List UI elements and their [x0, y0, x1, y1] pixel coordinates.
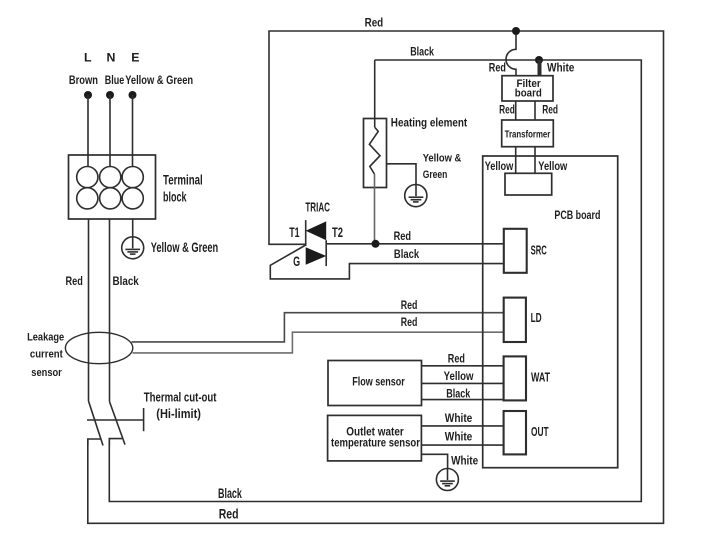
wire outlet white 1 — [422, 425, 504, 427]
node T2 junction — [372, 240, 380, 248]
svg-text:current: current — [30, 348, 63, 360]
wire L phase down — [88, 219, 90, 401]
wire red drop with hop — [506, 35, 516, 76]
svg-text:Black: Black — [410, 45, 434, 59]
wire black loop — [109, 60, 641, 502]
svg-text:Black: Black — [446, 387, 470, 401]
svg-text:Flow sensor: Flow sensor — [352, 374, 405, 388]
svg-text:TRIAC: TRIAC — [305, 200, 330, 215]
svg-text:Red: Red — [219, 505, 239, 521]
svg-text:Thermal cut-out: Thermal cut-out — [144, 389, 217, 404]
wire heating bottom — [374, 174, 376, 244]
label Thermal cut-out (Hi-limit) — [144, 389, 217, 421]
svg-text:Red: Red — [394, 229, 411, 243]
svg-text:board: board — [515, 88, 542, 100]
svg-text:Yellow & Green: Yellow & Green — [151, 240, 219, 255]
svg-text:White: White — [451, 453, 478, 467]
connector SRC — [504, 229, 547, 273]
wire sense upper to LD — [132, 313, 504, 342]
svg-text:E: E — [131, 51, 139, 65]
terminal block TB1 — [69, 155, 156, 219]
svg-text:Transformer: Transformer — [505, 129, 551, 140]
connector OUT — [504, 411, 549, 454]
ground earth E — [122, 237, 144, 259]
node white junction — [535, 56, 543, 64]
svg-text:T2: T2 — [332, 225, 343, 240]
triac Q1 — [305, 200, 330, 266]
wire L lead — [87, 95, 89, 167]
svg-text:Green: Green — [423, 169, 448, 181]
node red top junction — [512, 27, 520, 35]
svg-text:White: White — [445, 430, 473, 444]
wire outlet white 2 — [422, 444, 504, 446]
svg-text:Leakage: Leakage — [27, 331, 64, 343]
svg-text:Yellow: Yellow — [485, 159, 514, 173]
ground earth heating — [405, 183, 427, 206]
wire gate black to SRC — [270, 246, 504, 279]
svg-text:Blue: Blue — [105, 73, 125, 87]
wire white drop — [538, 60, 542, 76]
thermal cut-out switch S2 — [109, 402, 125, 445]
svg-text:Heating element: Heating element — [391, 116, 467, 130]
thermal cut-out switch S1 — [88, 401, 103, 446]
wire T2 red to SRC — [326, 243, 504, 245]
svg-text:White: White — [547, 61, 575, 75]
svg-text:Black: Black — [218, 485, 242, 501]
wire transformer yellow right — [534, 147, 536, 174]
wire N lead — [109, 95, 111, 167]
svg-text:Yellow: Yellow — [538, 159, 567, 173]
svg-text:(Hi-limit): (Hi-limit) — [156, 406, 201, 421]
svg-text:Red: Red — [401, 298, 418, 312]
wire filter-transformer left — [515, 101, 517, 120]
svg-text:G: G — [293, 254, 300, 269]
wire outlet earth white — [422, 454, 448, 468]
svg-text:Red: Red — [489, 61, 506, 75]
wire N neutral down — [109, 219, 111, 402]
svg-text:block: block — [163, 190, 187, 205]
svg-text:T1: T1 — [289, 225, 300, 240]
connector WAT — [504, 356, 550, 400]
svg-text:WAT: WAT — [531, 370, 550, 385]
svg-text:PCB board: PCB board — [554, 208, 600, 222]
cutout linkage — [87, 408, 144, 431]
label Leakage current sensor — [27, 331, 64, 379]
svg-text:Red: Red — [66, 274, 83, 288]
svg-text:Black: Black — [394, 247, 419, 261]
wire filter-transformer right — [534, 101, 536, 120]
wire flow yellow — [422, 382, 504, 384]
node N — [106, 91, 114, 99]
wire flow black — [422, 399, 504, 401]
svg-text:Red: Red — [401, 315, 418, 329]
transformer — [502, 120, 554, 147]
wire flow red — [422, 365, 504, 367]
svg-text:L: L — [84, 51, 92, 65]
leakage current sensor — [65, 332, 132, 363]
connector LD — [504, 298, 542, 342]
svg-text:Brown: Brown — [69, 73, 98, 87]
svg-text:White: White — [445, 411, 473, 425]
svg-text:Yellow: Yellow — [444, 369, 474, 383]
wire heating earth tap — [387, 164, 417, 184]
svg-text:Terminal: Terminal — [163, 173, 203, 188]
wire red main loop — [88, 31, 664, 523]
svg-text:Red: Red — [365, 16, 384, 30]
svg-text:Yellow & Green: Yellow & Green — [125, 73, 193, 87]
label Yellow & Green heating — [423, 153, 462, 181]
wire transformer yellow left — [515, 147, 517, 174]
wire sense lower to LD — [133, 332, 504, 353]
ground earth outlet — [436, 469, 458, 491]
flow sensor — [328, 361, 422, 406]
node L — [84, 91, 92, 99]
PCB input connector — [505, 173, 552, 195]
wire E lead — [132, 95, 134, 167]
svg-text:N: N — [107, 51, 116, 65]
svg-text:SRC: SRC — [531, 242, 548, 257]
wire heating top — [374, 60, 376, 127]
node E — [129, 91, 137, 99]
filter board — [502, 76, 553, 101]
svg-text:Yellow &: Yellow & — [423, 153, 462, 165]
heating element R1 — [364, 119, 387, 188]
svg-text:Red: Red — [448, 351, 465, 365]
svg-text:LD: LD — [531, 310, 542, 325]
svg-text:Red: Red — [499, 103, 515, 117]
svg-text:OUT: OUT — [531, 424, 549, 439]
wire E to earth — [132, 219, 134, 237]
svg-text:Black: Black — [113, 274, 139, 288]
svg-text:sensor: sensor — [31, 367, 62, 379]
svg-text:Red: Red — [542, 103, 558, 117]
PCB board — [483, 156, 618, 468]
svg-text:temperature sensor: temperature sensor — [331, 435, 420, 449]
outlet water temperature sensor — [328, 415, 422, 461]
